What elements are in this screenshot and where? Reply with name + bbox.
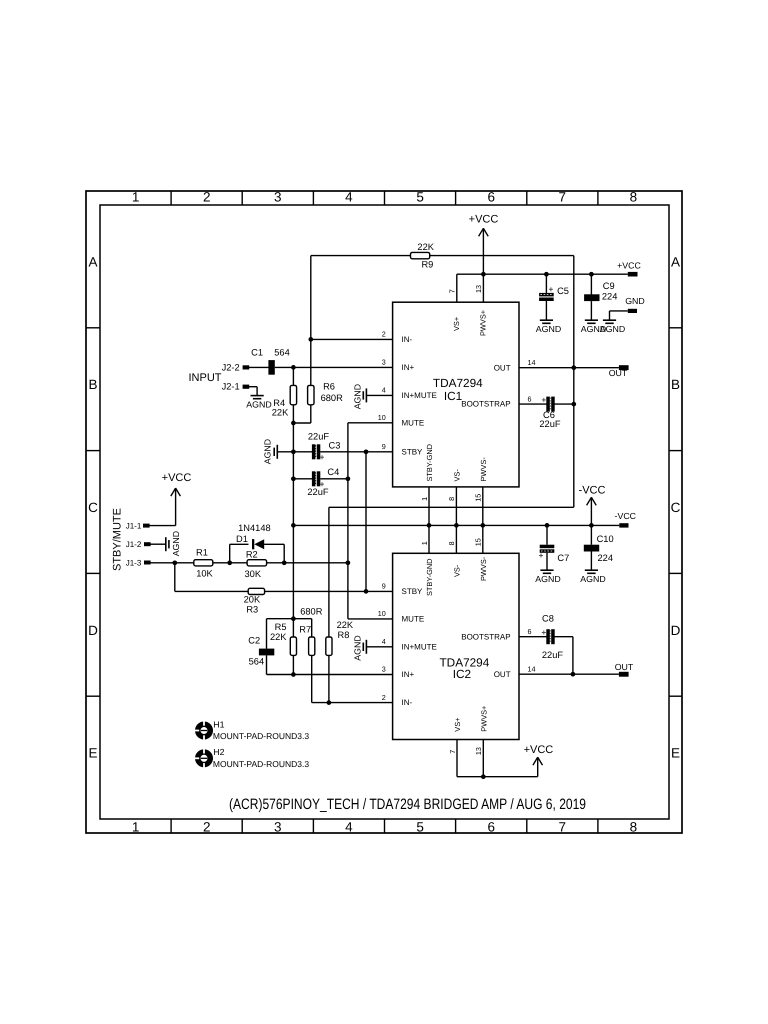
svg-text:GND: GND <box>625 296 645 306</box>
svg-text:C: C <box>88 500 98 515</box>
wire <box>573 256 575 508</box>
svg-text:224: 224 <box>602 291 618 301</box>
svg-text:14: 14 <box>528 358 536 367</box>
resistor R2 <box>245 549 267 579</box>
svg-text:+VCC: +VCC <box>162 472 192 484</box>
junction <box>571 672 576 677</box>
svg-text:VS-: VS- <box>453 564 462 577</box>
svg-text:4: 4 <box>382 637 386 646</box>
svg-text:OUT: OUT <box>609 368 628 378</box>
wire <box>310 405 312 423</box>
svg-text:R4: R4 <box>273 398 285 408</box>
svg-text:2: 2 <box>203 190 211 205</box>
junction <box>589 272 594 277</box>
resistor R4 <box>272 385 297 417</box>
svg-text:8: 8 <box>447 497 456 501</box>
svg-text:A: A <box>88 254 97 269</box>
wire OUT IC2 <box>519 673 619 675</box>
junction <box>346 560 351 565</box>
svg-text:B: B <box>671 377 680 392</box>
pad J1-3 <box>126 558 151 567</box>
svg-text:7: 7 <box>448 750 457 754</box>
wire <box>229 544 231 563</box>
svg-text:AGND: AGND <box>600 324 625 334</box>
junction <box>545 523 550 528</box>
svg-text:STBY: STBY <box>402 587 424 596</box>
wire <box>546 525 548 544</box>
svg-text:8: 8 <box>630 190 638 205</box>
svg-text:J1-1: J1-1 <box>126 521 142 530</box>
wire <box>267 618 312 620</box>
wire <box>554 636 573 638</box>
ground AGND at J1-2 <box>166 531 181 556</box>
svg-text:H2: H2 <box>213 747 224 757</box>
svg-text:C10: C10 <box>597 534 614 544</box>
junction <box>364 589 369 594</box>
wire <box>150 562 194 564</box>
svg-text:22K: 22K <box>272 408 289 418</box>
svg-text:6: 6 <box>487 819 495 834</box>
svg-text:A: A <box>671 254 680 269</box>
pad J2-2 <box>222 362 250 372</box>
wire MUTE IC2 <box>348 618 393 620</box>
svg-text:1N4148: 1N4148 <box>238 523 271 533</box>
wire IN- IC2 <box>312 702 393 704</box>
svg-text:22uF: 22uF <box>539 419 561 429</box>
svg-text:VS+: VS+ <box>452 317 461 331</box>
svg-text:6: 6 <box>528 394 532 403</box>
svg-text:R3: R3 <box>246 605 258 615</box>
wire C3 to STBY IC1 <box>320 451 392 453</box>
wire <box>311 655 313 702</box>
svg-text:-VCC: -VCC <box>615 511 637 521</box>
resistor R1 <box>194 547 214 578</box>
svg-text:8: 8 <box>630 819 638 834</box>
junction <box>480 523 485 528</box>
svg-text:7: 7 <box>559 190 567 205</box>
wire BOOTSTRAP IC1 <box>519 403 547 405</box>
wire <box>590 525 592 544</box>
wire <box>311 619 313 638</box>
mount pad H1 <box>194 719 309 741</box>
svg-text:1: 1 <box>132 190 140 205</box>
wire <box>537 757 539 777</box>
junction <box>291 449 296 454</box>
svg-text:2: 2 <box>382 693 386 702</box>
wire <box>572 637 574 675</box>
svg-text:E: E <box>88 746 97 761</box>
wire pin8 stub <box>455 487 457 553</box>
svg-text:22uF: 22uF <box>542 650 564 660</box>
ground AGND at IC1 pin 4 <box>352 384 366 409</box>
svg-text:4: 4 <box>382 386 386 395</box>
ground AGND at C9 <box>581 320 606 334</box>
svg-text:STBY: STBY <box>402 447 424 456</box>
resistor R8 <box>326 620 354 655</box>
svg-text:MUTE: MUTE <box>402 418 425 427</box>
svg-text:R7: R7 <box>299 625 311 635</box>
svg-text:PWVS-: PWVS- <box>479 556 488 581</box>
wire OUT IC1 <box>519 367 619 369</box>
svg-text:4: 4 <box>345 190 353 205</box>
svg-text:B: B <box>88 377 97 392</box>
svg-text:AGND: AGND <box>536 324 561 334</box>
wire <box>545 301 547 320</box>
svg-text:C: C <box>671 500 681 515</box>
wire IN+ IC2 <box>267 674 393 676</box>
svg-text:7: 7 <box>559 819 567 834</box>
mount pad H2 <box>194 747 309 769</box>
svg-text:9: 9 <box>382 582 386 591</box>
svg-text:STBY-GND: STBY-GND <box>425 558 434 596</box>
svg-text:C1: C1 <box>251 347 263 357</box>
wire <box>174 563 176 592</box>
wire <box>320 478 348 480</box>
junction <box>364 449 369 454</box>
junction <box>571 365 576 370</box>
pad OUT IC2 <box>615 662 634 677</box>
svg-text:PWVS-: PWVS- <box>479 457 488 482</box>
pad J1-1 <box>126 521 150 530</box>
wire <box>590 552 592 571</box>
resistor R9 <box>411 242 435 269</box>
svg-text:BOOTSTRAP: BOOTSTRAP <box>461 632 510 641</box>
power +VCC arrow IC1 <box>469 214 499 275</box>
wire pin7 stub IC2 <box>456 740 458 777</box>
svg-text:IN+MUTE: IN+MUTE <box>402 642 437 651</box>
junction <box>291 421 296 426</box>
capacitor C3 <box>308 432 340 460</box>
svg-text:C5: C5 <box>557 286 569 296</box>
svg-text:D1: D1 <box>236 534 248 544</box>
ground AGND at C7 <box>535 570 560 584</box>
wire <box>545 274 547 293</box>
wire <box>310 256 312 386</box>
svg-text:D: D <box>88 623 98 638</box>
junction <box>481 272 486 277</box>
svg-text:22K: 22K <box>270 632 287 642</box>
svg-text:IN+: IN+ <box>402 670 415 679</box>
power -VCC arrow <box>579 485 606 526</box>
svg-text:1: 1 <box>132 819 140 834</box>
pad J2-1 <box>222 382 250 392</box>
svg-text:PWVS+: PWVS+ <box>480 706 489 732</box>
junction <box>291 476 296 481</box>
capacitor C8 <box>542 614 564 660</box>
svg-text:3: 3 <box>274 190 282 205</box>
svg-text:AGND: AGND <box>535 574 560 584</box>
svg-text:6: 6 <box>487 190 495 205</box>
svg-text:224: 224 <box>598 553 614 563</box>
svg-text:IC2: IC2 <box>453 667 471 681</box>
svg-text:AGND: AGND <box>263 439 273 464</box>
svg-text:J1-2: J1-2 <box>126 540 142 549</box>
svg-text:+VCC: +VCC <box>469 214 499 226</box>
svg-text:IN+MUTE: IN+MUTE <box>402 391 437 400</box>
svg-text:564: 564 <box>274 347 290 357</box>
ground AGND at C10 <box>580 570 605 584</box>
svg-text:1: 1 <box>420 541 429 545</box>
resistor R3 <box>244 588 265 614</box>
svg-text:3: 3 <box>274 819 282 834</box>
svg-text:AGND: AGND <box>352 635 362 660</box>
svg-text:R2: R2 <box>246 549 258 559</box>
svg-text:VS-: VS- <box>453 469 462 482</box>
svg-text:AGND: AGND <box>352 384 362 409</box>
wire <box>267 562 348 564</box>
ground AGND at GND pad <box>600 320 625 334</box>
capacitor C1 <box>251 347 290 374</box>
wire <box>328 655 330 702</box>
svg-text:STBY/MUTE: STBY/MUTE <box>112 508 124 571</box>
ground AGND at C5 <box>536 320 561 334</box>
svg-text:R8: R8 <box>338 630 350 640</box>
wire <box>430 255 574 257</box>
wire <box>311 255 411 257</box>
wire <box>292 405 294 637</box>
junction <box>308 337 313 342</box>
wire <box>175 590 248 592</box>
capacitor C4 <box>307 467 339 497</box>
svg-text:J2-1: J2-1 <box>222 382 240 392</box>
svg-text:3: 3 <box>382 358 386 367</box>
svg-text:7: 7 <box>448 289 457 293</box>
svg-text:VS+: VS+ <box>453 718 462 732</box>
junction <box>481 774 486 779</box>
diode D1 1N4148 <box>236 523 271 549</box>
svg-text:5: 5 <box>416 190 424 205</box>
wire <box>277 451 312 453</box>
svg-text:R6: R6 <box>323 381 335 391</box>
svg-text:E: E <box>671 746 680 761</box>
svg-text:22K: 22K <box>417 242 434 252</box>
junction <box>172 560 177 565</box>
wire <box>213 562 247 564</box>
svg-text:IN-: IN- <box>402 698 413 707</box>
svg-text:C8: C8 <box>542 614 554 624</box>
wire pin13 stub IC1 <box>482 274 484 302</box>
wire <box>150 543 166 545</box>
wire <box>329 506 574 508</box>
svg-text:BOOTSTRAP: BOOTSTRAP <box>461 400 510 409</box>
ground AGND at J2-1 <box>246 396 271 410</box>
wire <box>283 544 285 563</box>
wire J2-2 to C1 <box>249 366 269 368</box>
wire <box>249 386 257 388</box>
junction <box>589 523 594 528</box>
wire <box>293 478 312 480</box>
svg-text:AGND: AGND <box>171 531 181 556</box>
capacitor C7 <box>539 545 569 563</box>
svg-text:(ACR)576PINOY_TECH / TDA7294 B: (ACR)576PINOY_TECH / TDA7294 BRIDGED AMP… <box>229 796 586 813</box>
wire <box>230 543 249 545</box>
pad +VCC <box>617 260 641 276</box>
junction <box>571 402 576 407</box>
svg-text:OUT: OUT <box>494 363 511 372</box>
junction <box>544 272 549 277</box>
svg-text:8: 8 <box>447 541 456 545</box>
svg-text:INPUT: INPUT <box>189 372 222 384</box>
svg-text:MOUNT-PAD-ROUND3.3: MOUNT-PAD-ROUND3.3 <box>213 759 309 769</box>
wire <box>293 422 310 424</box>
wire <box>546 553 548 570</box>
svg-text:22K: 22K <box>337 620 354 630</box>
svg-text:PWVS+: PWVS+ <box>479 310 488 336</box>
svg-text:+VCC: +VCC <box>617 260 641 270</box>
svg-text:10: 10 <box>378 413 386 422</box>
svg-text:D: D <box>671 623 681 638</box>
ground AGND at C3 <box>263 439 278 464</box>
svg-text:J1-3: J1-3 <box>126 558 142 567</box>
wire <box>554 403 574 405</box>
svg-text:9: 9 <box>382 442 386 451</box>
pad J1-2 <box>126 540 151 549</box>
junction <box>291 672 296 677</box>
svg-text:6: 6 <box>528 627 532 636</box>
svg-text:20K: 20K <box>244 595 261 605</box>
wire BOOTSTRAP IC2 <box>519 636 547 638</box>
svg-text:2: 2 <box>382 330 386 339</box>
IC IC2 TDA7294 box <box>393 553 519 739</box>
wire <box>590 274 592 294</box>
wire <box>609 311 611 320</box>
pad -VCC <box>615 511 637 528</box>
svg-text:13: 13 <box>474 285 483 293</box>
svg-text:IC1: IC1 <box>444 389 462 403</box>
wire <box>590 301 592 320</box>
wire +VCC rail <box>457 273 628 275</box>
svg-text:TDA7294: TDA7294 <box>433 376 483 390</box>
svg-text:5: 5 <box>416 819 424 834</box>
pad GND <box>625 296 645 313</box>
power +VCC arrow J1-1 <box>162 472 192 496</box>
resistor R6 <box>308 381 344 404</box>
svg-text:C9: C9 <box>603 281 615 291</box>
wire IN+MUTE IC1 <box>366 394 392 396</box>
wire MUTE vertical <box>347 423 349 619</box>
svg-text:C2: C2 <box>248 636 260 646</box>
svg-text:3: 3 <box>382 665 386 674</box>
resistor R7 <box>299 606 322 655</box>
svg-text:H1: H1 <box>213 719 224 729</box>
svg-text:15: 15 <box>474 538 483 546</box>
svg-text:680R: 680R <box>300 606 323 616</box>
IC IC1 TDA7294 box <box>393 302 519 487</box>
pad OUT IC1 <box>609 365 629 378</box>
wire IN- IC1 <box>311 338 393 340</box>
wire pin13 stub IC2 <box>482 740 484 777</box>
wire <box>256 387 258 396</box>
wire C1 to IN+ IC1 <box>275 366 393 368</box>
svg-text:R5: R5 <box>275 622 287 632</box>
wire <box>292 655 294 674</box>
wire <box>266 619 268 649</box>
junction <box>327 700 332 705</box>
svg-text:4: 4 <box>345 819 353 834</box>
capacitor C9 <box>584 281 617 302</box>
wire <box>292 367 294 385</box>
wire pin1 stub <box>428 487 430 553</box>
capacitor C10 <box>584 534 614 563</box>
svg-text:22uF: 22uF <box>308 432 330 442</box>
svg-text:C3: C3 <box>329 441 341 451</box>
junction <box>346 476 351 481</box>
wire pin7 stub IC1 <box>456 274 458 302</box>
svg-text:13: 13 <box>474 747 483 755</box>
wire IN+MUTE IC2 <box>366 646 392 648</box>
capacitor C2 <box>248 636 274 667</box>
wire <box>150 525 176 527</box>
wire <box>610 310 628 312</box>
svg-text:+VCC: +VCC <box>524 744 554 756</box>
svg-text:10K: 10K <box>196 569 213 579</box>
wire <box>328 507 330 637</box>
svg-text:10: 10 <box>378 609 386 618</box>
frame border <box>86 191 682 833</box>
svg-text:J2-2: J2-2 <box>222 362 240 372</box>
power +VCC arrow IC2 <box>524 744 554 765</box>
svg-text:15: 15 <box>474 494 483 502</box>
resistor R5 <box>270 622 297 656</box>
svg-text:30K: 30K <box>245 569 262 579</box>
svg-text:OUT: OUT <box>494 670 511 679</box>
svg-text:AGND: AGND <box>580 574 605 584</box>
svg-text:OUT: OUT <box>615 662 634 672</box>
svg-text:MOUNT-PAD-ROUND3.3: MOUNT-PAD-ROUND3.3 <box>213 731 309 741</box>
svg-text:-VCC: -VCC <box>579 485 606 497</box>
wire -VCC rail <box>293 524 619 526</box>
svg-text:680R: 680R <box>321 393 344 403</box>
svg-text:C4: C4 <box>327 467 339 477</box>
capacitor C6 <box>539 397 561 429</box>
wire <box>175 488 177 525</box>
svg-text:C7: C7 <box>557 553 569 563</box>
capacitor C5 <box>539 286 569 301</box>
wire <box>266 655 268 674</box>
svg-text:14: 14 <box>528 664 536 673</box>
ground AGND at IC2 pin 4 <box>352 635 366 660</box>
junction <box>227 560 232 565</box>
svg-text:IN-: IN- <box>402 335 413 344</box>
svg-text:22uF: 22uF <box>307 487 329 497</box>
wire <box>264 543 284 545</box>
wire <box>457 776 538 778</box>
wire R3 to STBY IC2 <box>265 590 393 592</box>
wire MUTE IC1 <box>348 422 393 424</box>
svg-text:R9: R9 <box>421 259 433 269</box>
wire pin15 stub <box>482 487 484 553</box>
svg-text:STBY-GND: STBY-GND <box>425 444 434 482</box>
junction <box>454 523 459 528</box>
svg-text:1: 1 <box>420 497 429 501</box>
junction <box>291 616 296 621</box>
svg-text:R1: R1 <box>196 547 208 557</box>
junction <box>291 365 296 370</box>
wire STBY link <box>365 452 367 592</box>
junction <box>282 560 287 565</box>
junction <box>291 523 296 528</box>
junction <box>427 523 432 528</box>
svg-text:AGND: AGND <box>246 400 271 410</box>
svg-text:564: 564 <box>249 657 265 667</box>
svg-text:IN+: IN+ <box>402 363 415 372</box>
svg-text:2: 2 <box>203 819 211 834</box>
svg-text:MUTE: MUTE <box>402 615 425 624</box>
